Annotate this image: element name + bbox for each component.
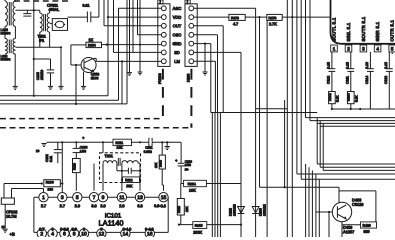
- svg-text:R354: R354: [188, 182, 196, 186]
- svg-text:15: 15: [161, 195, 167, 201]
- svg-text:SINL 5.1: SINL 5.1: [346, 22, 351, 41]
- svg-text:1: 1: [333, 46, 336, 51]
- svg-text:5: 5: [76, 195, 79, 201]
- svg-text:R112: R112: [125, 178, 133, 182]
- svg-text:10: 10: [81, 231, 87, 237]
- svg-text:IF1: IF1: [39, 39, 44, 43]
- svg-text:0: 0: [52, 227, 54, 231]
- svg-text:MMBF2: MMBF2: [0, 57, 10, 61]
- svg-text:9: 9: [102, 195, 105, 201]
- svg-text:0.9-3.3: 0.9-3.3: [154, 204, 166, 208]
- svg-text:100K: 100K: [193, 231, 202, 235]
- svg-text:R118: R118: [177, 206, 181, 213]
- svg-text:LA1140: LA1140: [99, 218, 124, 227]
- svg-text:LM: LM: [174, 59, 180, 64]
- svg-text:T101: T101: [104, 154, 112, 158]
- svg-text:+: +: [82, 136, 85, 140]
- svg-text:C311: C311: [346, 76, 350, 84]
- svg-text:R420: R420: [362, 224, 370, 228]
- svg-text:0.10: 0.10: [365, 62, 369, 69]
- svg-text:0.10: 0.10: [327, 62, 331, 69]
- svg-text:R110: R110: [72, 163, 76, 170]
- svg-text:0.10: 0.10: [384, 62, 388, 69]
- svg-text:12: 12: [99, 231, 105, 237]
- svg-text:R273: R273: [231, 16, 239, 20]
- svg-text:0.01: 0.01: [49, 156, 53, 162]
- svg-text:MMBF2: MMBF2: [0, 31, 10, 35]
- svg-text:SOUTL 5.1: SOUTL 5.1: [332, 17, 337, 41]
- svg-text:4: 4: [51, 231, 54, 237]
- svg-text:R314: R314: [347, 93, 351, 101]
- svg-text:4.7: 4.7: [233, 22, 238, 26]
- svg-text:1: 1: [42, 195, 45, 201]
- svg-text:SINR 5.1: SINR 5.1: [375, 21, 380, 41]
- svg-text:330: 330: [47, 188, 53, 192]
- svg-text:0.01: 0.01: [82, 4, 89, 8]
- svg-text:0.10: 0.10: [346, 62, 350, 69]
- svg-text:5.6K: 5.6K: [336, 95, 340, 102]
- svg-text:0-3.8: 0-3.8: [60, 227, 69, 231]
- svg-text:2: 2: [40, 231, 43, 237]
- svg-text:3.7: 3.7: [39, 227, 44, 231]
- svg-text:AGC: AGC: [173, 6, 182, 11]
- svg-text:6: 6: [63, 231, 66, 237]
- svg-text:2.7: 2.7: [41, 204, 46, 208]
- svg-text:A1267: A1267: [343, 229, 354, 234]
- svg-text:R106: R106: [46, 180, 54, 184]
- svg-text:2.0: 2.0: [119, 204, 124, 208]
- svg-text:0: 0: [83, 227, 85, 231]
- svg-text:R115: R115: [195, 224, 203, 228]
- svg-text:0: 0: [100, 227, 102, 231]
- svg-text:C3129: C3129: [352, 202, 363, 207]
- svg-text:R254: R254: [88, 43, 96, 47]
- svg-text:VDD: VDD: [173, 15, 182, 20]
- svg-text:0-4.3: 0-4.3: [145, 227, 154, 231]
- svg-text:3: 3: [61, 195, 64, 201]
- svg-text:820: 820: [363, 230, 369, 234]
- svg-text:430AL: 430AL: [48, 8, 59, 12]
- svg-text:R278: R278: [268, 16, 276, 20]
- svg-text:16: 16: [147, 231, 153, 237]
- svg-text:3.0: 3.0: [71, 227, 76, 231]
- svg-text:1/50: 1/50: [80, 149, 86, 153]
- svg-text:5: 5: [391, 46, 394, 51]
- svg-text:0-4.0: 0-4.0: [123, 227, 132, 231]
- svg-text:+B: +B: [9, 232, 14, 237]
- svg-text:10.7M: 10.7M: [6, 215, 17, 219]
- svg-text:OUT: OUT: [173, 23, 182, 28]
- svg-text:1SS132: 1SS132: [262, 204, 266, 216]
- svg-text:C314: C314: [365, 76, 369, 84]
- svg-text:2.7: 2.7: [60, 204, 65, 208]
- svg-text:C313: C313: [384, 76, 388, 84]
- svg-text:10K: 10K: [189, 189, 196, 193]
- svg-text:+: +: [175, 159, 177, 163]
- svg-text:R312: R312: [328, 93, 332, 101]
- svg-text:13: 13: [137, 195, 143, 201]
- svg-text:10K: 10K: [116, 146, 123, 150]
- svg-text:2: 2: [347, 46, 350, 51]
- svg-text:2.7K: 2.7K: [269, 22, 277, 26]
- svg-text:0.023: 0.023: [144, 150, 152, 154]
- svg-text:10·: 10·: [185, 167, 189, 171]
- svg-text:8: 8: [73, 231, 76, 237]
- svg-text:SD: SD: [174, 50, 180, 55]
- svg-text:150/10: 150/10: [40, 70, 44, 80]
- svg-text:10K: 10K: [154, 163, 158, 168]
- svg-text:3.0: 3.0: [91, 204, 96, 208]
- svg-text:PN203: PN203: [158, 73, 162, 84]
- svg-text:11: 11: [119, 195, 124, 201]
- svg-text:OUTR 5.1: OUTR 5.1: [390, 19, 395, 41]
- svg-text:R111: R111: [115, 141, 123, 145]
- svg-text:2103: 2103: [91, 76, 99, 80]
- svg-text:GND: GND: [173, 41, 182, 46]
- svg-text:3: 3: [362, 46, 365, 51]
- svg-text:5.6K: 5.6K: [355, 95, 359, 102]
- svg-text:2.0: 2.0: [75, 204, 80, 208]
- svg-text:14: 14: [123, 231, 129, 237]
- svg-text:C312: C312: [327, 76, 331, 84]
- svg-text:20: 20: [1, 225, 5, 229]
- svg-text:7: 7: [93, 195, 96, 201]
- svg-text:2.0: 2.0: [100, 204, 105, 208]
- svg-text:H203: H203: [186, 74, 190, 82]
- svg-text:R113: R113: [159, 160, 163, 167]
- svg-text:SOUTR 5.1: SOUTR 5.1: [361, 16, 366, 41]
- svg-text:1SS132: 1SS132: [232, 204, 236, 216]
- svg-text:15K: 15K: [126, 184, 133, 188]
- svg-text:OSC: OSC: [173, 32, 182, 37]
- svg-text:3.3: 3.3: [137, 204, 142, 208]
- svg-text:4: 4: [376, 46, 379, 51]
- svg-text:20: 20: [36, 149, 40, 153]
- svg-text:10K: 10K: [185, 205, 189, 212]
